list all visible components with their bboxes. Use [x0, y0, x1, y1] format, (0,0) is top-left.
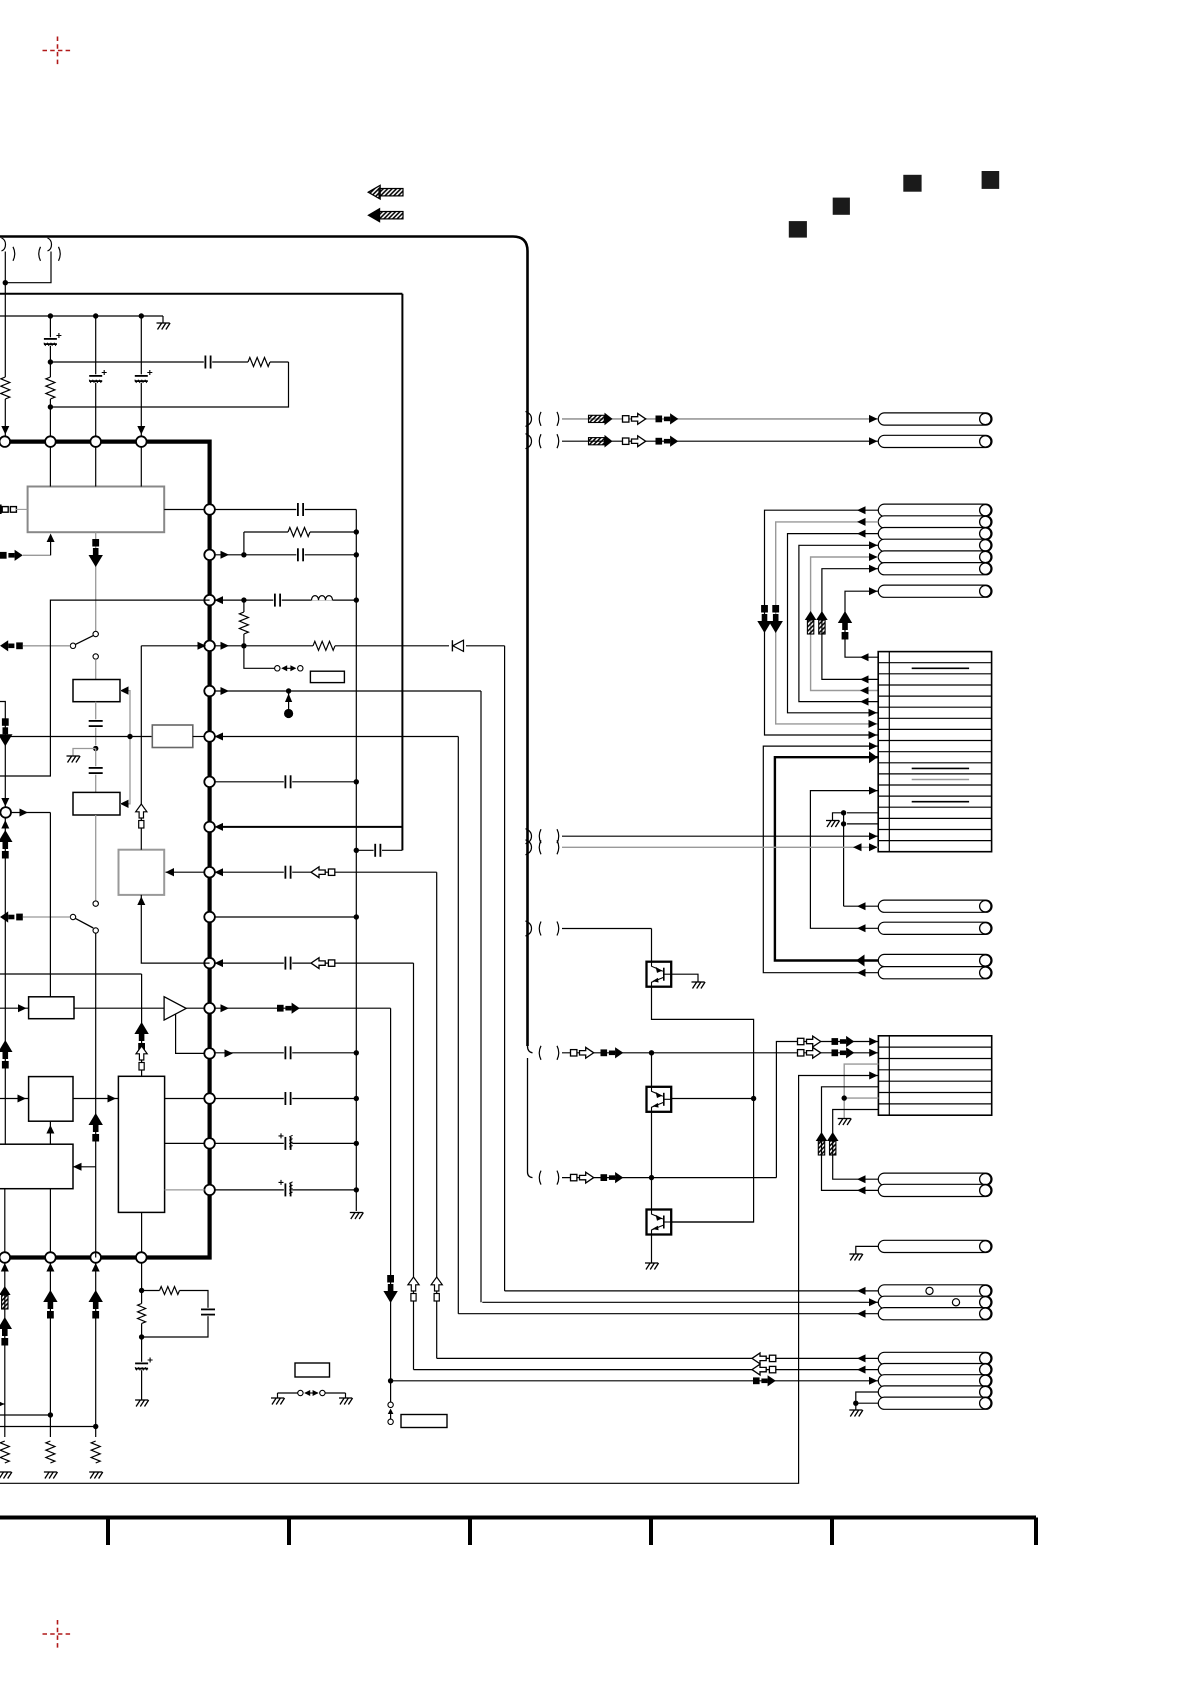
flow marker down v1	[761, 605, 768, 613]
test point TP1	[284, 709, 293, 718]
wire J8-5 ground link	[856, 1402, 879, 1404]
arrow into fn8	[108, 1095, 117, 1103]
buffer amp A1 (triangle)	[164, 997, 186, 1020]
ground PC1	[692, 981, 705, 983]
resistor R row645	[313, 640, 335, 651]
arrow into J2-4	[869, 541, 878, 549]
arrow row963 into pin	[215, 959, 224, 967]
wire PC2 output	[671, 1098, 753, 1100]
arrow into CN row6	[869, 709, 878, 717]
flow hatched arrow row441	[589, 438, 605, 445]
wire x5 upper chain (from left edge into pin circle)	[0, 702, 5, 807]
wire PC3 emitter to ground	[651, 1235, 653, 1264]
connector pin J2-7	[878, 585, 992, 597]
stub contact a	[388, 1402, 393, 1407]
flow marker hatched up x5	[0, 1286, 11, 1295]
wire row1098 right	[215, 1098, 356, 1100]
arrow into CN2 row4	[869, 1072, 878, 1080]
wire into PC2	[651, 1053, 653, 1087]
flow open arrow row1053a	[571, 1050, 577, 1056]
wire PC2 emitter to PC3	[651, 1112, 653, 1210]
arrow into CN1 row18	[869, 843, 878, 851]
border hook wire exit y419	[526, 411, 532, 426]
ground J8	[849, 1409, 862, 1411]
block fn6 (wide box)	[0, 1144, 73, 1189]
IC U1 right pin 2	[204, 550, 215, 561]
IC U1 right pin 6	[204, 731, 215, 742]
wire marker to SW1 pivot	[23, 645, 70, 647]
connector pin J4-2	[878, 967, 992, 979]
jumper SW4 left ground lead	[277, 1393, 279, 1398]
IC U1 right pin 11	[204, 958, 215, 969]
wire supply to ground	[162, 316, 164, 323]
arrow into pill row419	[869, 415, 878, 423]
arrow up into pin circle x5	[1, 820, 9, 829]
switch SW1 pivot	[70, 643, 75, 648]
flow solid arrow row419	[656, 416, 663, 423]
wire fn8 to pin1098	[165, 1098, 205, 1100]
arrow out J5-1	[857, 1175, 866, 1183]
resistor R x141 vertical	[137, 1304, 147, 1324]
arrow row691 out	[221, 687, 230, 695]
switch SW1 upper contact	[93, 631, 98, 636]
connector pin J7-2	[878, 1296, 992, 1308]
IC U1 bottom pin 3	[90, 1252, 101, 1263]
RC feedback wire y362	[50, 361, 288, 363]
signal-in marker row555	[0, 552, 7, 559]
input marker (open squares) pin5 row	[0, 505, 2, 515]
flow marker up x50	[43, 1290, 57, 1302]
wire fn9 to buffer	[74, 1007, 164, 1009]
diode D1 row645	[449, 639, 466, 653]
wire row600 right	[215, 599, 356, 601]
IC U1 right pin 14	[204, 1093, 215, 1104]
flow marker hatched up v5	[805, 611, 817, 620]
flow marker open left row872	[311, 867, 325, 878]
wire CN1 row9 to J4-2	[763, 746, 878, 973]
wire exit left y1415	[0, 1414, 50, 1416]
wire fn1 to pin row509	[164, 509, 204, 511]
border hook wire exit y1053	[528, 1046, 533, 1053]
wire into J8-3	[391, 1380, 879, 1382]
connector pin J1-1	[878, 413, 992, 425]
wire row509 to bus	[215, 509, 356, 511]
resistor R feedback	[248, 357, 270, 368]
wire row850 bus to feedback	[356, 849, 402, 851]
wire exit row836 to CN1 row17	[562, 835, 878, 837]
ruler tick 3	[468, 1518, 472, 1546]
jumper SW4 ground right	[339, 1397, 352, 1399]
junction row600 x244	[241, 597, 246, 602]
flow marker hatched up v8	[816, 1132, 828, 1141]
border hook top x5	[2, 238, 6, 251]
flow marker open left row963	[311, 958, 325, 969]
wire net A down from border	[4, 252, 6, 283]
IC U1 right pin 9	[204, 867, 215, 878]
arrow out CN row5	[860, 698, 869, 706]
switch SW2 lower contact	[93, 928, 98, 933]
switch SW3 arrows	[281, 665, 287, 671]
arrow into CN1 row9	[869, 742, 878, 750]
ruler tick 4	[649, 1518, 653, 1546]
CN1 key mark row14	[912, 801, 969, 803]
wire pin872 to fn5	[166, 871, 205, 873]
break marks row928	[539, 922, 541, 936]
arrow on pin circle output	[20, 809, 29, 817]
ground bot x95	[89, 1471, 102, 1473]
capacitor C row1098	[284, 1092, 292, 1106]
block fn4 (delay box)	[152, 725, 193, 748]
junction row555 bus	[354, 552, 359, 557]
wire top exit row419 (gray)	[562, 418, 878, 420]
junction supply x50	[48, 313, 53, 318]
connector pin J2-5	[878, 551, 992, 563]
arrow into fn1 bottom	[47, 534, 55, 543]
ground CN1	[826, 820, 839, 822]
wire row555 up into fn1	[50, 538, 52, 556]
arrow into CN1 row17	[869, 832, 878, 840]
junction row1143 bus	[354, 1141, 359, 1146]
IC U1 bottom pin 1	[0, 1252, 10, 1263]
arrow into fn9	[18, 1004, 27, 1012]
connector pin J8-5	[878, 1397, 992, 1409]
wire row555 gray	[23, 554, 51, 556]
arrow into CN1 row13	[869, 787, 878, 795]
resistor R col x5	[0, 377, 11, 399]
IC U1 right pin 13	[204, 1048, 215, 1059]
wire tall-box feed y974	[0, 973, 142, 975]
arrow into J2-5	[869, 553, 878, 561]
connector pin J2-3	[878, 528, 992, 540]
flow marker open up x141	[136, 804, 147, 818]
border hook wire exit y928	[526, 921, 532, 936]
CN1 key mark row11	[912, 767, 969, 769]
wire J2-1 to CN row8	[765, 510, 879, 735]
ground J6	[849, 1253, 862, 1255]
wire row1008 right	[215, 1007, 391, 1009]
wire into J7-1	[505, 1290, 879, 1292]
capacitor C row1143 (electrolytic)	[284, 1136, 292, 1150]
switch SW1 arm	[75, 636, 93, 645]
wire fn8 to pin1190 (gray)	[165, 1189, 205, 1191]
wire buffer to pin1008	[186, 1007, 204, 1009]
wire J8-4 ground link	[856, 1392, 879, 1403]
flow solid arrow row441	[656, 438, 663, 445]
arrow into CN2 row2	[869, 1049, 878, 1057]
wire fn6 to bottom pin2	[49, 1189, 51, 1252]
break mark '(' net B	[39, 247, 41, 261]
resistor R bot x5	[0, 1441, 10, 1463]
wire fn8 to pin1143	[165, 1142, 205, 1144]
wire into J7-3	[458, 1313, 878, 1315]
registration mark top-left	[43, 37, 73, 65]
flow open arrow row1177	[571, 1174, 577, 1180]
junction J8-3	[388, 1378, 393, 1383]
arrow row1053 out	[225, 1049, 234, 1057]
arrow row736 into pin	[215, 733, 224, 741]
arrow mid row847	[853, 843, 862, 851]
connector pin J2-4	[878, 539, 992, 551]
connector pin J2-1	[878, 504, 992, 516]
junction net A/B	[3, 280, 8, 285]
resistor R bot x95	[90, 1441, 101, 1463]
IC U1 right pin 10	[204, 912, 215, 923]
IC U1 top pin 1	[0, 436, 10, 447]
arrow into CN2 row1	[869, 1038, 878, 1046]
wire fn2 to C1	[95, 702, 97, 745]
connector stub x390 bottom	[390, 1383, 392, 1402]
ground x141	[135, 1399, 148, 1401]
flow marker up v7	[838, 611, 852, 623]
flow marker up x95b	[89, 1290, 103, 1302]
wire stub into x5 column	[0, 1403, 5, 1405]
arrow into pill row441	[869, 437, 878, 445]
wire C1 to C2	[95, 749, 97, 793]
flow marker solid right row1008	[277, 1005, 284, 1012]
pin circle x5 y812	[0, 807, 11, 818]
wire CN2 row3 gray chain	[844, 1064, 878, 1118]
wire marker to SW2 pivot	[23, 916, 70, 918]
wire J2-3 to CN row6	[788, 534, 879, 713]
capacitor C col x95 (electrolytic)	[89, 374, 103, 382]
wire CN1 row13 to J3-2	[810, 791, 878, 929]
wire exit row847 to CN1 row18 (gray)	[562, 846, 878, 848]
ground internal 1	[67, 755, 80, 757]
wire row917 right	[215, 916, 356, 918]
wire into J7-2	[482, 1301, 878, 1303]
board outline (thick border of main PCB block)	[0, 237, 528, 1047]
wire J2-6 to CN row3	[822, 569, 878, 680]
bottom ruler bar	[0, 1516, 1036, 1520]
jumper SW4 ground left	[271, 1397, 284, 1399]
arrow out J3-2	[857, 924, 866, 932]
flow marker open up v872	[431, 1277, 442, 1291]
marker square 2	[833, 198, 850, 215]
wire row645 right (to diode and corner)	[215, 645, 505, 647]
junction x50 y1415	[48, 1412, 53, 1417]
flow solid arrow J8-3	[753, 1377, 760, 1384]
connector pin J4-1	[878, 954, 992, 966]
ground CN2 chain	[838, 1118, 851, 1120]
wire exit row928 to opto1	[562, 928, 652, 930]
flow marker hatched up v6	[816, 611, 828, 620]
junction row691 x288	[286, 688, 291, 693]
switch SW2 arm	[75, 918, 93, 928]
wire row691	[215, 690, 481, 692]
stub arrow	[388, 1409, 394, 1415]
wire row1190 right	[215, 1189, 356, 1191]
wire fn8 bottom to pin4	[141, 1212, 143, 1252]
gray link fn2 to fn4 chain	[120, 691, 130, 804]
wire CN2 row5 to J5-2	[822, 1087, 879, 1191]
capacitor C loop	[201, 1308, 215, 1316]
arrow into fn2	[120, 686, 129, 694]
break mark row1053	[557, 1046, 559, 1060]
wire J6 to ground	[856, 1246, 879, 1254]
connector pin J7-3	[878, 1308, 992, 1320]
junction J8-5	[853, 1401, 858, 1406]
label box SW3	[310, 671, 344, 682]
junction supply x141	[139, 313, 144, 318]
wire row1143 right	[215, 1142, 356, 1144]
capacitor C row963	[284, 956, 292, 970]
junction gray x130 row736	[127, 734, 132, 739]
capacitor C row555	[296, 548, 304, 562]
junction x141 y1290	[139, 1288, 144, 1293]
wire fn7 to fn8	[73, 1098, 118, 1100]
wire top exit row441	[562, 440, 878, 442]
CN1 key mark row12 (gray)	[912, 779, 969, 781]
flow solid arrow row1053a	[601, 1049, 608, 1056]
wire SW1 to fn2	[95, 659, 97, 679]
CN1 row15/16 ground chain	[847, 812, 878, 814]
arrow out CN row4	[860, 687, 869, 695]
registration mark bottom-left	[43, 1620, 73, 1648]
optocoupler PC1	[647, 962, 672, 987]
junction row1052 bus	[354, 1050, 359, 1055]
wire column x50	[49, 316, 51, 442]
wire pin circle right to fn9 feed	[11, 812, 50, 814]
block fn9 (comparator box)	[29, 997, 74, 1019]
junction CN1 gnd b	[841, 821, 846, 826]
flow marker up x5c	[0, 1317, 12, 1329]
connector block CN2	[878, 1036, 991, 1115]
wire J2-4 to CN row5	[799, 545, 878, 701]
junction row850 bus	[354, 848, 359, 853]
arrow out J7-1	[857, 1287, 866, 1295]
flow open arrow row1041	[798, 1038, 804, 1044]
break marks row836	[539, 829, 541, 843]
flow solid arrow row1177	[601, 1174, 608, 1181]
arrow up bottom pin2	[46, 1263, 54, 1272]
IC U1 right pin 1	[204, 504, 215, 515]
junction row1190 bus	[354, 1187, 359, 1192]
wire CN2 row4 long return	[0, 1076, 878, 1484]
flow marker open up v963	[408, 1277, 419, 1291]
ruler tick 6	[1034, 1518, 1038, 1546]
resistor R loop	[160, 1286, 180, 1296]
connector pin J8-4	[878, 1386, 992, 1398]
nc circle J7-1	[926, 1287, 933, 1294]
arrow into J2-6	[869, 565, 878, 573]
flow open arrow left J8-1	[752, 1353, 766, 1364]
wire column x95	[95, 316, 97, 442]
ruler tick 1	[106, 1518, 110, 1546]
junction row645 x244	[241, 643, 246, 648]
capacitor C2 (internal)	[89, 766, 103, 774]
wire fn4 to pin row736	[193, 736, 205, 738]
wire feedback bus top (to x402)	[0, 293, 402, 295]
wire fn3 down to SW2 contact	[95, 815, 97, 901]
junction row555 x244	[241, 552, 246, 557]
IC U1 outline (top/right/bottom thick bus)	[0, 442, 210, 1258]
feedback from buffer to pin1053	[176, 1014, 205, 1053]
capacitor C feedback	[204, 355, 212, 369]
wire column x5 to pin	[4, 283, 6, 436]
connector block CN1	[878, 652, 991, 852]
wire PC3 output	[671, 1221, 753, 1223]
label box x401	[401, 1415, 447, 1428]
junction row1098 bus	[354, 1096, 359, 1101]
switch SW3 contact b	[298, 666, 303, 671]
arrow row600 into wire	[215, 596, 224, 604]
wire J2-7 to CN row1	[845, 591, 878, 657]
resistor R bot x50	[45, 1441, 56, 1463]
arrow row645 out	[221, 642, 230, 650]
marker square 1	[789, 221, 807, 238]
flow open arrow left J8-2	[752, 1364, 766, 1375]
wire x244 rows600-646	[243, 600, 245, 646]
IC U1 right pin 3	[204, 595, 215, 606]
ground bot x50	[44, 1471, 57, 1473]
wire bottom pin4 column	[141, 1263, 143, 1400]
junction row1053 opto2	[649, 1050, 654, 1055]
break marks row847	[539, 840, 541, 854]
flow marker up x5a	[0, 830, 12, 842]
capacitor C row850	[374, 843, 382, 857]
nc circle J7-2	[952, 1299, 959, 1306]
switch SW3 feed	[244, 646, 275, 669]
arrow row872 into pin	[215, 868, 224, 876]
connector pin J3-2	[878, 922, 992, 934]
IC U1 right pin 5	[204, 686, 215, 697]
junction row781 bus	[354, 779, 359, 784]
junction row917 bus	[354, 914, 359, 919]
legend hatched arrow (open head)	[379, 189, 403, 196]
wire J2-2 to CN row7 (gray)	[776, 522, 879, 724]
arrow into J8-3	[869, 1377, 878, 1385]
legend hatched arrow (solid head)	[379, 212, 403, 219]
junction x95 y1426	[93, 1424, 98, 1429]
IC U1 right pin 16	[204, 1185, 215, 1196]
flow marker down v1008	[387, 1275, 394, 1283]
junction x50 y362	[48, 359, 53, 364]
ground supply rail	[157, 322, 170, 324]
wire CN1 row10 to J4-1 (thick)	[775, 757, 878, 960]
junction x50 y407	[48, 404, 53, 409]
jumper SW4 right lead	[325, 1392, 346, 1394]
flow open arrow row1053b	[798, 1050, 804, 1056]
junction CN2 row6	[842, 1095, 847, 1100]
arrow into CN row7	[869, 720, 878, 728]
arrow row645 into pin (left)	[198, 642, 207, 650]
IC U1 top pin 4	[136, 436, 147, 447]
connector pin J6-1	[878, 1240, 992, 1252]
wire row1098 left edge to fn7	[0, 1098, 29, 1100]
wire bottom pin2 column	[49, 1263, 51, 1437]
resistor R x244 vertical	[238, 612, 249, 634]
arrow out J7-3	[857, 1310, 866, 1318]
wire column x141	[140, 316, 142, 442]
arrow out J8-2	[857, 1366, 866, 1374]
marker square 4	[982, 171, 1000, 189]
arrow out J2-3	[857, 530, 866, 538]
junction x141 y1337	[139, 1334, 144, 1339]
ruler tick 5	[830, 1518, 834, 1546]
connector pin J8-1	[878, 1352, 992, 1364]
wire bottom pin3 column	[95, 1263, 97, 1437]
wire bottom pin1 column	[4, 1263, 6, 1437]
wire fn6 to bottom pin1	[4, 1189, 6, 1252]
wire CN2 row7 to J5-1	[833, 1110, 879, 1180]
IC U1 top pin 3	[90, 436, 101, 447]
arrow out J4-1	[856, 955, 865, 967]
ruler tick 2	[287, 1518, 291, 1546]
component bus vertical x356	[355, 510, 357, 1212]
flow solid arrow row1053b	[832, 1049, 839, 1056]
capacitor C row781	[284, 775, 292, 789]
signal-out marker row917	[0, 911, 8, 922]
